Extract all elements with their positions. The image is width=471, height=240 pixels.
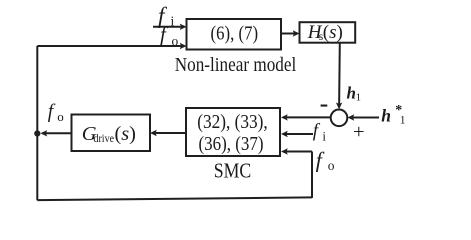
wire f_i stub into SMC	[283, 133, 313, 135]
svg-text:Non-linear model: Non-linear model	[175, 54, 297, 76]
wire f_o top feedback into model	[37, 45, 184, 47]
wire bottom horizontal	[37, 197, 312, 200]
arrowhead f_o into SMC	[281, 148, 288, 154]
box Non-linear model (6),(7)	[187, 19, 282, 50]
svg-text:(36), (37): (36), (37)	[199, 134, 264, 155]
box SMC (32),(33),(36),(37)	[186, 108, 280, 156]
svg-text:f: f	[48, 102, 56, 123]
svg-text:(6), (7): (6), (7)	[211, 23, 259, 44]
arrowhead into Gdrive	[150, 130, 157, 136]
svg-text:(s): (s)	[115, 123, 136, 145]
arrowhead into Hs	[293, 30, 300, 36]
wire Hs(s) down to summing junction	[338, 43, 341, 108]
svg-text:f: f	[160, 22, 169, 46]
arrowhead into SMC from summing junction	[281, 114, 288, 120]
svg-text:SMC: SMC	[214, 158, 252, 182]
svg-text:+: +	[353, 121, 365, 143]
svg-text:(s): (s)	[323, 22, 343, 43]
box Gdrive(s)	[72, 115, 151, 152]
svg-text:o: o	[57, 109, 64, 124]
wire f_o into SMC	[283, 151, 312, 153]
wire h*1 input stub	[350, 117, 380, 119]
svg-text:(32), (33),: (32), (33),	[197, 112, 268, 133]
wire Gdrive to node	[43, 132, 72, 134]
svg-text:i: i	[171, 14, 175, 29]
wire summing junction to SMC	[283, 116, 331, 118]
svg-text:i: i	[322, 129, 326, 144]
svg-text:h: h	[347, 84, 356, 103]
wire f_i input stub top	[153, 26, 185, 28]
svg-text:1: 1	[356, 92, 362, 104]
box Hs(s)	[300, 22, 356, 43]
svg-text:f: f	[313, 120, 321, 141]
wire model to Hs(s)	[281, 33, 298, 35]
arrowhead h*1 into summing junction	[348, 114, 355, 120]
summing junction	[331, 110, 348, 127]
svg-text:1: 1	[400, 115, 406, 127]
arrowhead f_i into SMC	[281, 131, 288, 137]
arrowhead f_o top	[180, 43, 187, 49]
arrowhead into node	[40, 130, 47, 136]
arrowhead f_i top	[180, 24, 187, 30]
label minus sign	[321, 105, 328, 107]
node junction dot	[34, 130, 40, 136]
svg-text:f: f	[316, 147, 325, 172]
wire left vertical	[36, 46, 38, 200]
svg-text:o: o	[172, 34, 179, 49]
svg-text:h: h	[381, 106, 391, 126]
wire SMC to Gdrive	[152, 132, 186, 134]
svg-text:o: o	[328, 158, 335, 173]
arrowhead down into summing junction	[336, 103, 342, 110]
wire right vertical feedback	[311, 152, 313, 198]
svg-text:drive: drive	[94, 133, 115, 145]
